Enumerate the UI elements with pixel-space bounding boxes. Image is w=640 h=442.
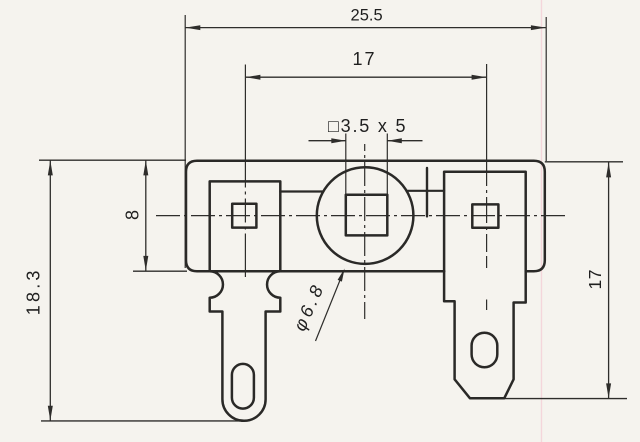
svg-text:□3.5 x 5: □3.5 x 5 [328,116,407,136]
svg-text:φ6.8: φ6.8 [290,280,329,335]
center circle dia 6.8 [317,167,414,264]
dimension 3.5 right arrow line [387,140,422,142]
main body rounded rectangle outline [186,161,545,271]
arrowhead 3.5 right [387,138,402,143]
bottom reference line (right tab bottom datum) [500,398,627,400]
arrowhead 17 right [472,75,487,80]
right tab oval slot [472,333,498,368]
extension line right for 25.5 [545,17,547,161]
extension line square hole left [345,134,347,196]
top reference line (body top extended, right) [545,161,623,163]
extension/centerline left hole [244,65,246,278]
svg-text:18.3: 18.3 [24,267,44,315]
arrowhead 18.3 bottom [48,406,53,421]
dimension line 18.3 (left vertical) [49,160,51,420]
top reference line (flange datum, left) [39,159,186,161]
arrowhead 25.5 right [531,25,546,30]
right terminal square hole [472,204,498,227]
arrowhead leader dia6.8 [338,269,345,282]
extension line left for 25.5 [184,15,186,268]
arrowhead right 17 top [606,162,611,177]
dimension line 17 (right vertical) [608,162,610,398]
left terminal upper box [210,181,281,271]
centerline vertical through circle [364,144,366,319]
right terminal upper box [444,172,526,271]
dimension line 8 (vertical) [145,160,147,271]
arrowhead 18.3 top [48,160,53,175]
left terminal square hole [232,204,256,228]
strip edge left of circle [280,190,323,192]
svg-text:17: 17 [352,49,376,69]
bottom reference line (left tab bottom datum) [41,420,240,422]
extension line square hole right [386,134,388,196]
arrowhead 25.5 left [185,25,200,30]
arrowhead 8 bottom [143,256,148,271]
reference line for 8 dim bottom [133,270,187,272]
leader line for dia 6.8 [316,272,344,342]
svg-text:8: 8 [122,210,142,220]
left tab oval slot [232,364,254,409]
arrowhead 8 top [143,160,148,175]
centerline horizontal through holes [156,215,568,217]
left terminal lower tab outline [210,271,281,421]
dimension line 17 top [245,76,486,78]
center square hole 3.5x5 [346,195,388,236]
arrowhead 17 left [245,75,260,80]
arrowhead right 17 bottom [606,383,611,398]
svg-text:17: 17 [585,269,605,289]
centerline dash below right tab [486,300,488,311]
svg-text:25.5: 25.5 [351,7,383,25]
dimension line 25.5 [185,27,546,29]
strip edge right of circle [407,190,444,192]
scan artifact pink line 1 [541,0,543,442]
extension/centerline right hole [486,64,488,268]
vertical tick mark near right strip [426,168,428,216]
dimension 3.5 left arrow line [309,140,346,142]
right terminal lower tab outline [444,271,526,398]
arrowhead 3.5 left [331,138,346,143]
